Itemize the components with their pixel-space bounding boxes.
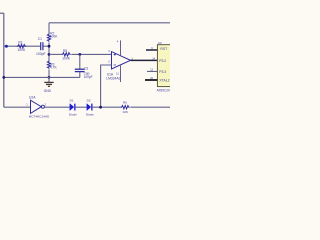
resistor R3 (vertical): [47, 61, 50, 69]
svg-text:MC74HC14AD: MC74HC14AD: [29, 114, 50, 118]
capacitor C1: [40, 42, 42, 50]
wire: vertical rail x=49: [48, 23, 50, 34]
svg-text:AT89C2051: AT89C2051: [157, 88, 170, 92]
resistor R6: [121, 106, 130, 109]
svg-text:D2: D2: [87, 99, 91, 103]
svg-text:4.7K: 4.7K: [50, 66, 58, 70]
svg-text:XTAL2: XTAL2: [159, 79, 169, 83]
wire: main row y=54.4: [49, 53, 62, 55]
wire: lower row y=77.4: [4, 76, 80, 78]
svg-text:Diode: Diode: [69, 112, 77, 116]
svg-text:100pF: 100pF: [36, 52, 46, 56]
wire: top rail from R2 corner to right edge: [49, 22, 170, 24]
sheet background: [0, 0, 170, 150]
ground: [44, 81, 53, 83]
diode D1: [70, 104, 74, 111]
IC U3: [157, 45, 171, 87]
diode D2: [87, 104, 91, 111]
svg-text:R5: R5: [63, 49, 67, 53]
svg-text:U3: U3: [158, 41, 162, 45]
capacitor C3: [75, 68, 85, 70]
resistor R2 (vertical): [47, 34, 50, 42]
svg-text:LM324AD: LM324AD: [106, 76, 121, 80]
wire: bottom row from inverter to right edge: [44, 106, 69, 108]
svg-text:100pF: 100pF: [84, 75, 93, 79]
wire: left entry tick at top: [0, 12, 4, 14]
svg-text:GND: GND: [44, 89, 52, 93]
pin 4 power stub: [120, 40, 122, 55]
svg-text:P3.2: P3.2: [159, 59, 166, 63]
pin 11 power stub: [120, 66, 122, 83]
pin wire y=71.4: [147, 70, 157, 72]
resistor R5: [62, 53, 71, 56]
node: junction main row / C3: [78, 53, 81, 56]
svg-text:Diode: Diode: [86, 112, 94, 116]
wire: bottom row left segment to inverter input: [4, 106, 31, 108]
pin wire y=80: [145, 79, 157, 81]
svg-text:RST: RST: [160, 47, 167, 51]
svg-text:100K: 100K: [17, 48, 26, 52]
node: junction rail/lower row: [48, 76, 51, 79]
node: input junction dot: [5, 45, 8, 48]
svg-text:P3.3: P3.3: [159, 70, 166, 74]
svg-text:C1: C1: [38, 37, 42, 41]
node: junction rail/input row: [48, 45, 51, 48]
node: junction feedback / bottom row: [99, 106, 102, 109]
op-amp U1A: [112, 52, 131, 69]
node: junction rail/main row: [48, 53, 51, 56]
svg-text:11: 11: [116, 71, 119, 75]
wire: input row y=46: [4, 45, 40, 47]
svg-text:C3: C3: [84, 66, 88, 70]
wire: op-amp output to U3: [131, 59, 158, 61]
svg-text:100K: 100K: [62, 56, 71, 60]
svg-text:100K: 100K: [50, 35, 59, 39]
inverter U2A: [31, 100, 42, 113]
svg-text:R6: R6: [123, 101, 127, 105]
wire: C3 branch: [79, 54, 81, 68]
resistor R1: [17, 45, 26, 48]
pin wire y=50: [146, 49, 157, 51]
svg-text:U2A: U2A: [29, 96, 36, 100]
wire: op-amp negative input feedback: [101, 65, 112, 107]
wire: GND stub: [48, 77, 50, 82]
svg-text:D1: D1: [70, 99, 74, 103]
svg-text:10K: 10K: [123, 110, 129, 114]
node: junction left rail / lower row: [2, 76, 5, 79]
wire: left vertical rail: [3, 13, 5, 107]
svg-text:R1: R1: [18, 41, 22, 45]
